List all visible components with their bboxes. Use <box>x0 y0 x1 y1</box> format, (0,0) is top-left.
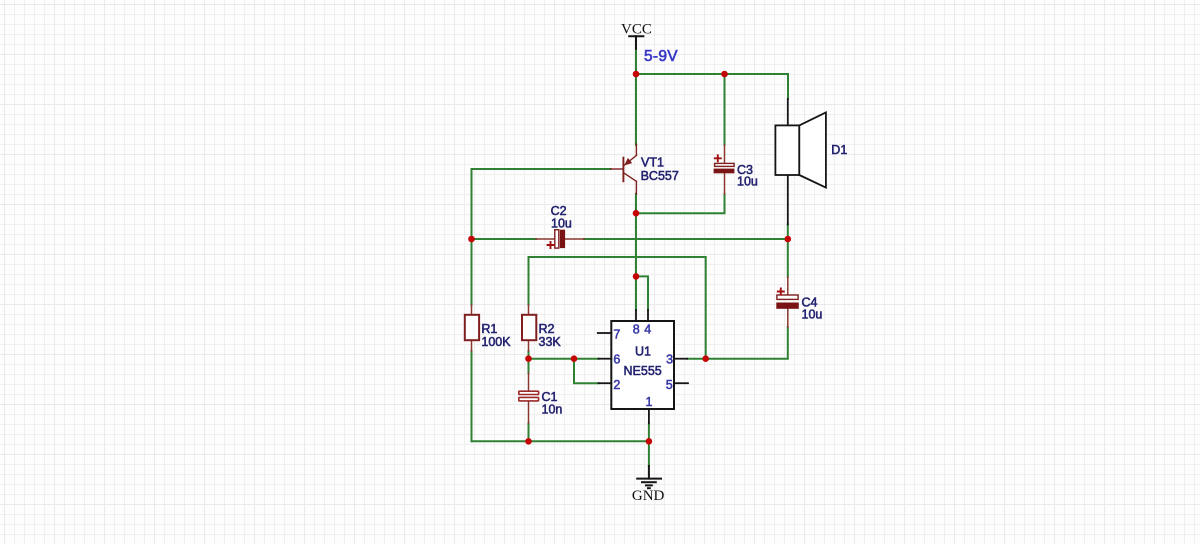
speaker D1 <box>775 99 826 224</box>
wire speaker bottom <box>787 224 789 239</box>
pin 2 stub <box>599 382 612 384</box>
svg-text:33K: 33K <box>539 335 562 349</box>
wire R2 bottom <box>528 351 530 373</box>
wire C4 top <box>787 239 789 277</box>
svg-text:VCC: VCC <box>621 22 652 38</box>
node R2-C1 junction <box>525 355 532 362</box>
wire C3 top <box>724 74 726 145</box>
node C1 bottom junction <box>525 438 532 445</box>
wire top rail VCC <box>636 73 788 75</box>
node C3 top junction <box>721 71 728 78</box>
pin 5 stub <box>674 382 688 384</box>
node C4 top junction <box>785 236 792 243</box>
resistor R1 <box>465 305 479 351</box>
node collector junction <box>633 210 640 217</box>
svg-text:5: 5 <box>666 378 673 392</box>
node pin8 junction <box>633 273 640 280</box>
svg-text:GND: GND <box>632 488 665 504</box>
pin 3 stub <box>674 358 687 360</box>
svg-text:10n: 10n <box>542 403 563 417</box>
node VCC junction <box>633 71 640 78</box>
node C2 left junction <box>468 236 475 243</box>
svg-text:1: 1 <box>646 395 653 409</box>
wire left vertical upper <box>471 169 473 305</box>
pin 1 stub <box>648 409 650 423</box>
svg-text:R1: R1 <box>481 322 497 336</box>
transistor Q VT1 <box>611 144 637 194</box>
svg-text:10u: 10u <box>737 174 758 188</box>
wire C2 left <box>472 238 537 240</box>
svg-text:7: 7 <box>613 328 620 342</box>
svg-text:R2: R2 <box>539 322 555 336</box>
pin 4 stub <box>647 310 649 321</box>
capacitor C2 <box>536 230 584 248</box>
op-amp U1 NE555 box <box>598 310 688 423</box>
svg-text:U1: U1 <box>635 345 651 359</box>
wire collector down to pin 8 <box>635 194 637 310</box>
svg-text:100K: 100K <box>481 335 511 349</box>
wire pin 2 jog <box>574 359 599 384</box>
node pin6-pin2 junction <box>571 355 578 362</box>
svg-text:D1: D1 <box>831 143 847 157</box>
svg-text:5-9V: 5-9V <box>644 48 678 65</box>
svg-text:10u: 10u <box>802 308 823 322</box>
capacitor C1 <box>519 373 539 423</box>
capacitor C4 <box>776 277 799 327</box>
wire power stem <box>635 49 637 74</box>
wire C1 bottom <box>528 423 530 441</box>
capacitor C3 <box>714 145 735 194</box>
svg-text:BC557: BC557 <box>641 169 679 183</box>
wire emitter to VCC <box>635 74 637 145</box>
svg-text:10u: 10u <box>551 217 572 231</box>
wire C2 right to speaker bottom node <box>584 238 788 240</box>
ground <box>637 466 661 488</box>
svg-text:VT1: VT1 <box>641 156 664 170</box>
pin 7 stub <box>598 332 612 334</box>
wire pin 6 row <box>529 358 599 360</box>
wire speaker top drop <box>787 74 789 99</box>
svg-text:8: 8 <box>633 323 640 337</box>
power symbol VCC <box>629 36 643 49</box>
node pin3 junction <box>702 355 709 362</box>
node GND junction <box>646 438 653 445</box>
resistor R2 <box>522 305 536 351</box>
pin 6 stub <box>599 358 612 360</box>
wire C3 bottom to collector node <box>636 194 725 213</box>
svg-text:NE555: NE555 <box>624 364 662 378</box>
svg-text:6: 6 <box>613 353 620 367</box>
svg-text:4: 4 <box>644 323 651 337</box>
svg-text:2: 2 <box>613 378 620 392</box>
wire R2 top to pin3 riser <box>529 257 706 359</box>
pin 8 stub <box>635 310 637 321</box>
wire left vertical lower <box>471 351 473 441</box>
wire pin 1 to ground <box>648 423 650 466</box>
wire bottom rail <box>472 440 649 442</box>
wire base horizontal <box>472 168 611 170</box>
wire pin 4 jog <box>636 276 648 310</box>
svg-text:3: 3 <box>666 353 673 367</box>
wire pin 3 to C4 bottom <box>687 327 788 359</box>
